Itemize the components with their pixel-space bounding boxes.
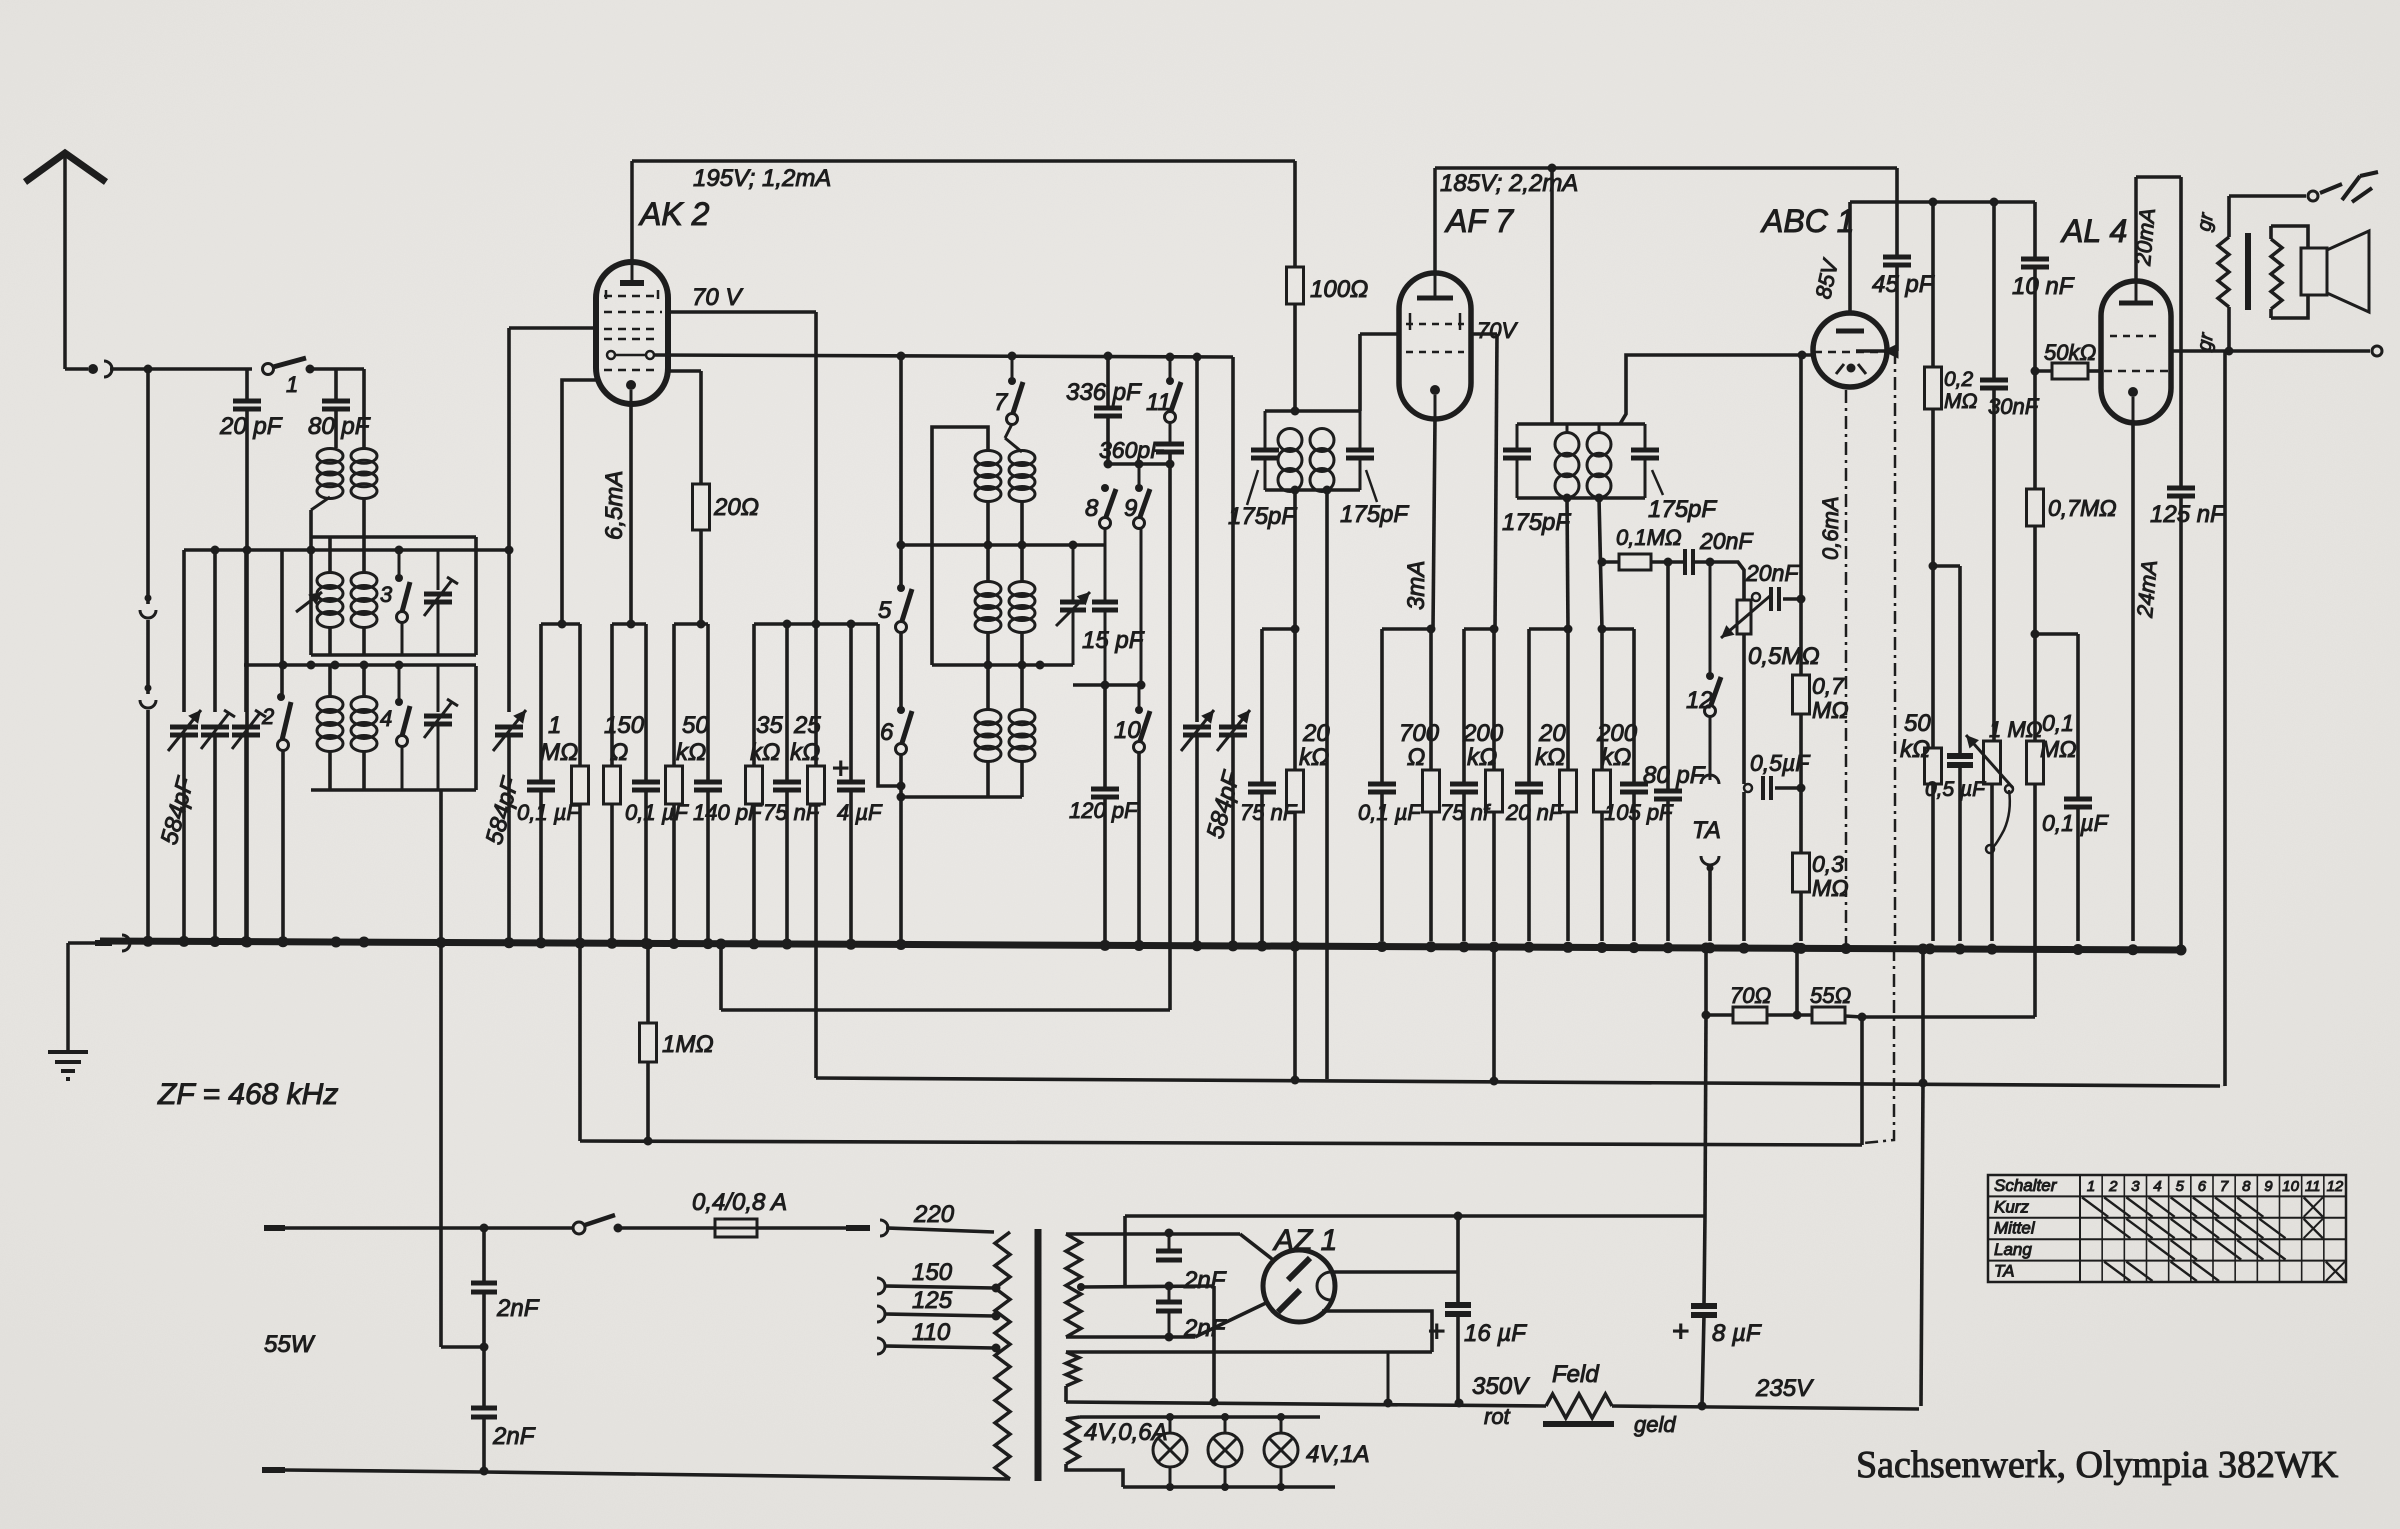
svg-text:175pF: 175pF [1228, 503, 1297, 530]
band coil L3 secondary [351, 666, 377, 790]
svg-text:9: 9 [1124, 495, 1137, 522]
AVC resistor 0,1Mohm [1602, 525, 1684, 570]
AK2 anode bar [620, 262, 644, 283]
tap 150 [877, 1259, 1001, 1294]
osc feedback line A [721, 1008, 1170, 1012]
antenna coil L1 secondary [351, 369, 377, 537]
svg-text:35: 35 [756, 712, 783, 739]
svg-text:20 nF: 20 nF [1505, 800, 1564, 825]
wire lamp winding riser [1387, 1352, 1390, 1403]
wire L3 box to below-bus [439, 790, 443, 1347]
svg-text:0,7MΩ: 0,7MΩ [2048, 495, 2117, 521]
svg-text:1: 1 [548, 712, 561, 739]
pair 20nF+20k [1529, 625, 1573, 634]
osc coil bottom tie [901, 795, 1022, 799]
potentiometer 1Mohm [1966, 717, 2042, 853]
AK2 grid1 lead to 1Mohm [562, 380, 596, 624]
svg-text:2: 2 [261, 704, 274, 729]
label 4V 0,6A [1084, 1419, 1168, 1446]
pair 75nf+200k [1464, 625, 1499, 634]
pair 75nF+20k [1262, 625, 1300, 634]
IFT1 capacitor 175pF right [1340, 411, 1409, 528]
svg-text:4: 4 [2153, 1178, 2161, 1195]
AF7 cathode lead [1433, 419, 1435, 629]
svg-text:80 pF: 80 pF [1643, 762, 1706, 789]
wire bus down x580 [578, 944, 582, 1141]
AL4 plate to speaker line [2171, 346, 2382, 356]
wire y550 rail [184, 546, 514, 555]
svg-text:2: 2 [2108, 1178, 2118, 1195]
svg-text:ABC 1: ABC 1 [1760, 203, 1854, 239]
IFT2 coil right [1587, 424, 1611, 498]
AK2 grid2 wire to osc rail [654, 352, 1233, 362]
svg-text:8: 8 [2242, 1178, 2251, 1195]
AZ1 filament lead 2 [1322, 1311, 1432, 1352]
svg-text:Kurz: Kurz [1994, 1197, 2029, 1216]
svg-text:3mA: 3mA [1403, 561, 1430, 610]
svg-text:350V: 350V [1472, 1373, 1530, 1400]
resistor 25kohm [790, 624, 825, 941]
IFT1 bottom wire [1265, 486, 1360, 495]
wire input to switch 1 [110, 365, 252, 374]
mains plug right [846, 1220, 888, 1236]
osc mid rail y545 [901, 541, 1105, 550]
switch 10 [1114, 685, 1150, 941]
switch 9 [1124, 464, 1150, 685]
svg-text:70 V: 70 V [692, 284, 743, 311]
IFT2 capacitor 175pF right [1631, 424, 1717, 523]
wire x181 down [182, 550, 186, 712]
pair 0,1uF+700ohm [1382, 625, 1436, 634]
chassis bus [100, 936, 2187, 956]
tube AF7 [1399, 273, 1471, 419]
svg-text:+: + [1428, 1315, 1446, 1348]
tube AK2 [596, 262, 668, 404]
wire to mains switch [285, 1224, 573, 1233]
svg-text:336 pF: 336 pF [1066, 379, 1142, 406]
svg-text:11: 11 [2305, 1178, 2321, 1195]
resistor 20ohm [693, 484, 759, 624]
capacitor 140pF [693, 624, 763, 941]
resistor 70ohm [1702, 946, 1772, 1023]
IFT1 top wire [1265, 407, 1360, 416]
capacitor 45pF [1872, 168, 1935, 351]
osc coil T1 right [1005, 438, 1035, 545]
AZ1 anode bars [1278, 1258, 1310, 1312]
svg-text:kΩ: kΩ [790, 739, 820, 766]
corner to switch6 line [878, 624, 901, 786]
svg-text:125 nF: 125 nF [2150, 501, 2226, 528]
wire pot bottom [1742, 634, 1746, 784]
ABC1 plate wire [1856, 344, 1898, 358]
svg-text:TA: TA [1994, 1262, 2014, 1281]
speaker B+ return line [2223, 351, 2227, 1086]
svg-text:MΩ: MΩ [2040, 736, 2077, 762]
svg-text:30nF: 30nF [1988, 394, 2040, 419]
HV top wire [1066, 1229, 1240, 1238]
svg-text:Feld: Feld [1552, 1361, 1599, 1388]
svg-text:20Ω: 20Ω [713, 494, 759, 521]
row y685 [1073, 681, 1146, 690]
svg-text:7: 7 [994, 389, 1009, 416]
svg-text:kΩ: kΩ [750, 739, 780, 766]
label 6,5mA [601, 471, 628, 540]
HV secondary winding [1066, 1234, 1081, 1337]
tap 220 [886, 1201, 994, 1232]
AVC line x1327 [1325, 490, 1329, 1079]
switch 4 [380, 661, 410, 791]
switch 2 [261, 550, 291, 941]
AK2 70V screen wire [668, 284, 816, 312]
rectifier filament winding [1066, 1352, 1079, 1402]
capacitor 15pF [1082, 602, 1145, 685]
wire IFT1 bottom down [1293, 490, 1297, 629]
svg-text:4: 4 [380, 706, 392, 731]
resistor 55ohm [1767, 948, 1867, 1023]
potentiometer 0,5Mohm [1721, 596, 1820, 670]
wire to volume pot [1710, 562, 1744, 600]
svg-text:0,3: 0,3 [1812, 851, 1844, 877]
AF7 internal grids [1406, 313, 1464, 352]
tuning gang capacitor 584pF a [1181, 357, 1214, 941]
resistor 50kohm [666, 624, 710, 941]
pair 200k+105pF [1598, 625, 1635, 634]
resistor 0,3Mohm [1793, 788, 1849, 941]
wire 1Mohm pot to bus [1990, 784, 1994, 941]
osc row y464 [1104, 460, 1175, 469]
svg-text:kΩ: kΩ [1535, 744, 1565, 771]
svg-text:150: 150 [912, 1259, 953, 1286]
band coil L3 primary [317, 666, 343, 790]
wire bus to 235V corner [1921, 949, 1923, 1406]
tube AL4 [2101, 281, 2171, 423]
svg-text:50: 50 [682, 712, 709, 739]
svg-text:1MΩ: 1MΩ [662, 1031, 714, 1058]
svg-text:125: 125 [912, 1287, 953, 1314]
resistor 1Mohm b [640, 944, 714, 1141]
output transformer core [2245, 233, 2251, 310]
AGC line B [816, 1078, 2220, 1088]
switch 3 [380, 550, 410, 655]
capacitor 2nF line cap a [471, 1228, 540, 1347]
svg-text:0,6mA: 0,6mA [1818, 496, 1843, 560]
svg-text:175pF: 175pF [1648, 496, 1717, 523]
svg-text:MΩ: MΩ [1812, 875, 1849, 901]
trimmer capacitor gang b [201, 550, 235, 941]
wire 55ohm to 0,1M column [1862, 1015, 2035, 1019]
svg-text:AL 4: AL 4 [2060, 213, 2127, 249]
svg-text:MΩ: MΩ [1812, 697, 1849, 723]
wire y537 [311, 535, 476, 539]
wire IFT2 left coil down [1567, 498, 1568, 629]
svg-text:16 µF: 16 µF [1464, 1320, 1527, 1347]
band coil L2 primary [317, 573, 343, 656]
svg-text:kΩ: kΩ [1601, 744, 1631, 771]
svg-text:MΩ: MΩ [1944, 390, 1977, 413]
185V rail [1435, 164, 1897, 198]
AF7 cathode [1430, 385, 1440, 419]
switch 7 [994, 356, 1023, 438]
capacitor 4uF electrolytic [832, 624, 883, 941]
padder trimmer 15pF pair [1056, 545, 1105, 665]
label 584pF left [156, 774, 200, 848]
antenna tap socket lower [140, 685, 156, 709]
capacitor 30nF [1980, 202, 2040, 741]
capacitor 8uF [1672, 1216, 1762, 1406]
osc coil T1 frame [932, 427, 988, 665]
wire CT node down [1212, 1286, 1216, 1402]
mains plug left upper [264, 1225, 285, 1231]
label 3mA [1403, 561, 1430, 610]
label ZF = 468 kHz [157, 1078, 338, 1111]
mains switch [573, 1215, 715, 1234]
capacitor 75nf c [1440, 629, 1492, 941]
wire x901 rail to switches [897, 356, 906, 586]
wire ABC1 top [1848, 202, 1852, 313]
svg-text:220: 220 [913, 1201, 955, 1228]
switch 12 [1686, 562, 1721, 717]
svg-text:1: 1 [286, 372, 298, 397]
svg-text:0,1 µF: 0,1 µF [1358, 800, 1422, 825]
capacitor 105pF [1604, 629, 1674, 941]
svg-text:6: 6 [880, 719, 894, 746]
svg-text:5: 5 [878, 597, 892, 624]
wire antenna to input jack [65, 361, 112, 377]
svg-text:1: 1 [2087, 1178, 2095, 1195]
osc coil T2 right [1009, 545, 1035, 665]
capacitor 2nF hv a [1156, 1236, 1227, 1294]
label 85V [1810, 255, 1843, 301]
back-bias drop x1295 [1291, 946, 1300, 1085]
capacitor 0,1uF d [2042, 634, 2110, 941]
svg-text:0,5MΩ: 0,5MΩ [1748, 643, 1820, 670]
AZ1 filament lead 1 [1334, 1270, 1458, 1274]
svg-text:175pF: 175pF [1340, 501, 1409, 528]
IFT2 capacitor 175pF left [1502, 424, 1571, 536]
svg-text:Ω: Ω [610, 739, 628, 766]
tap 110 [877, 1319, 1001, 1354]
resistor 35kohm [746, 624, 784, 941]
wire primary bottom return [262, 1467, 1010, 1480]
osc rail corner down x1233 [1231, 357, 1235, 727]
ground symbol [48, 943, 88, 1079]
svg-text:+: + [1672, 1315, 1690, 1348]
wire filament to 16uF [1457, 1216, 1459, 1272]
capacitor 20nF a [1505, 629, 1564, 941]
svg-text:ZF = 468 kHz: ZF = 468 kHz [157, 1078, 338, 1111]
svg-text:10: 10 [2282, 1178, 2299, 1195]
svg-text:70V: 70V [1477, 318, 1518, 343]
headphone jack [2229, 172, 2378, 202]
pair top 0,1uF+1Mohm [541, 620, 580, 629]
label AZ 1 [1272, 1224, 1337, 1257]
AZ1 filament arc [1317, 1272, 1331, 1300]
capacitor 75nF a [763, 624, 821, 941]
svg-text:AF 7: AF 7 [1444, 203, 1514, 239]
svg-text:235V: 235V [1755, 1375, 1814, 1402]
svg-text:0,1MΩ: 0,1MΩ [1616, 525, 1682, 550]
ABC1 cathode [1836, 364, 1866, 375]
svg-text:12: 12 [2327, 1178, 2344, 1195]
dial lamp 3 [1264, 1417, 1298, 1487]
pot wiper tap [1745, 560, 1806, 611]
IFT1 coil left [1278, 429, 1302, 492]
svg-text:+: + [832, 752, 850, 785]
label AK 2 [638, 196, 710, 232]
svg-text:24mA: 24mA [2132, 559, 2162, 619]
lamp bottom wire [1123, 1483, 1335, 1491]
pair top 35k 75nF 25k 4uF [754, 620, 878, 629]
HV center tap [1077, 1282, 1214, 1292]
svg-text:Lang: Lang [1994, 1240, 2032, 1259]
svg-text:80 pF: 80 pF [308, 413, 371, 440]
osc coil T2 left [975, 545, 1001, 665]
svg-text:55Ω: 55Ω [1810, 983, 1851, 1008]
back-bias drop x816 [814, 941, 818, 1078]
trimmer capacitor gang c [232, 550, 266, 941]
svg-text:0,1 µF: 0,1 µF [2042, 810, 2110, 836]
riser to DC+ line [1123, 1216, 1127, 1286]
pair top 150ohm+0,1uF [612, 620, 646, 629]
node/down-lead to ground bus [146, 369, 150, 941]
svg-text:kΩ: kΩ [1900, 736, 1930, 763]
AK2 plate lead to 195V rail [630, 161, 634, 262]
svg-text:9: 9 [2264, 1178, 2273, 1195]
AL4 cathode [2128, 387, 2138, 423]
switch 11 [1146, 357, 1181, 423]
svg-text:5: 5 [2176, 1178, 2185, 1195]
band coil L2 box [311, 537, 476, 655]
switch 1 [263, 358, 315, 397]
svg-text:15 pF: 15 pF [1082, 627, 1145, 654]
capacitor 2nF line cap b [471, 1347, 536, 1471]
resistor 50kohm grid stopper [2031, 340, 2102, 379]
label 584pF gang [1202, 768, 1246, 842]
IFT2 top wire [1517, 422, 1645, 426]
pair top 50k+140pF [674, 620, 708, 629]
svg-text:MΩ: MΩ [540, 739, 578, 766]
svg-text:3: 3 [380, 582, 393, 607]
wire HV top to AZ1 anode [1240, 1234, 1272, 1259]
svg-text:20: 20 [1538, 720, 1566, 747]
dial lamp 1 [1153, 1417, 1187, 1487]
resistor 0,1Mohm b [2027, 634, 2077, 1017]
caption Sachsenwerk Olympia 382WK [1856, 1444, 2339, 1486]
resistor 700ohm [1399, 629, 1440, 941]
capacitor 80pF avc [1643, 562, 1706, 941]
AK2 cathode [626, 380, 636, 404]
wire AK2 screen down x816 [814, 312, 818, 624]
node row y665 [244, 661, 476, 670]
switch 8 [1085, 484, 1116, 545]
AF7 anode bar [1417, 273, 1453, 298]
tuning arrow into L2 [296, 592, 322, 612]
svg-text:0,7: 0,7 [1812, 673, 1845, 699]
svg-text:700: 700 [1399, 720, 1440, 747]
AL4 plate lead [2130, 177, 2181, 281]
svg-text:0,4/0,8 A: 0,4/0,8 A [692, 1189, 787, 1216]
grid lead AK2 to band filter [509, 328, 596, 712]
label ABC 1 [1760, 203, 1854, 239]
osc coil T3 left [975, 665, 1001, 797]
235V line [1612, 1375, 1919, 1411]
svg-text:6: 6 [2198, 1178, 2207, 1195]
svg-text:55W: 55W [264, 1331, 316, 1358]
wire 8uF column upper [1705, 1015, 1706, 1216]
capacitor 2nF hv b [1156, 1290, 1227, 1342]
HV bottom wire [1066, 1333, 1195, 1342]
svg-text:200: 200 [1596, 720, 1638, 747]
ABC1 grid dash [1814, 351, 1886, 354]
osc node row y665 [932, 661, 1073, 670]
svg-text:360pF: 360pF [1099, 437, 1166, 463]
svg-text:11: 11 [1146, 389, 1171, 416]
svg-text:105 pF: 105 pF [1604, 800, 1674, 825]
svg-text:110: 110 [912, 1319, 951, 1346]
svg-text:25: 25 [793, 712, 821, 739]
svg-text:8 µF: 8 µF [1712, 1320, 1762, 1347]
output transformer primary [2218, 196, 2229, 351]
switch 5 [878, 584, 912, 708]
rectifier output line y1216 [1125, 1212, 1705, 1221]
wire bus x441 to caps [441, 1343, 489, 1352]
resistor 0,2Mohm [1925, 202, 1978, 564]
band coil L2 secondary [330, 537, 377, 655]
osc coil T1 left [975, 451, 1001, 546]
antenna tap socket upper [140, 595, 156, 619]
AF7 plate lead [1433, 168, 1437, 273]
svg-text:7: 7 [2220, 1178, 2229, 1195]
svg-text:185V; 2,2mA: 185V; 2,2mA [1440, 170, 1578, 197]
svg-text:Ω: Ω [1407, 744, 1425, 771]
wire IFT2 right coil down [1598, 498, 1607, 629]
dashed cathode current path 0,6mA [1818, 390, 1846, 944]
svg-text:0,2: 0,2 [1944, 368, 1974, 391]
series capacitor 0,5uF [1744, 750, 1811, 800]
wire 55ohm node down [1860, 1017, 1864, 1145]
svg-text:kΩ: kΩ [1467, 744, 1497, 771]
AL4 anode bar [2119, 281, 2153, 303]
trimmer capacitor in L3 box [424, 665, 458, 790]
svg-text:4 µF: 4 µF [837, 800, 883, 825]
antenna coil L1 primary [311, 449, 343, 538]
capacitor 10nF [2012, 202, 2075, 489]
label AL 4 [2060, 213, 2127, 249]
svg-text:3: 3 [2131, 1178, 2140, 1195]
svg-text:20nF: 20nF [1699, 528, 1754, 554]
switch position table [1988, 1175, 2346, 1282]
svg-text:0,1: 0,1 [2042, 710, 2074, 736]
resistor 20kohm b [1535, 629, 1577, 941]
label gr upper [2193, 210, 2218, 233]
svg-text:120 pF: 120 pF [1069, 798, 1139, 823]
label AF 7 [1444, 203, 1514, 239]
svg-text:12: 12 [1686, 687, 1713, 714]
svg-text:20 pF: 20 pF [219, 413, 283, 440]
svg-text:4V,1A: 4V,1A [1306, 1441, 1370, 1468]
transformer primary winding [995, 1232, 1010, 1479]
svg-text:10: 10 [1114, 717, 1141, 744]
resistor 20kohm a [1287, 629, 1331, 941]
trimmer capacitor in L2 box [424, 550, 458, 655]
wire speaker return corner [2220, 1085, 2225, 1087]
label gr lower [2193, 330, 2218, 353]
capacitor 16uF [1428, 1216, 1527, 1402]
IFT2 bottom wire [1517, 494, 1645, 503]
svg-text:50kΩ: 50kΩ [2044, 340, 2096, 365]
AF line to ABC1 grid [1799, 355, 1803, 599]
IFT2 coil left [1555, 424, 1579, 498]
